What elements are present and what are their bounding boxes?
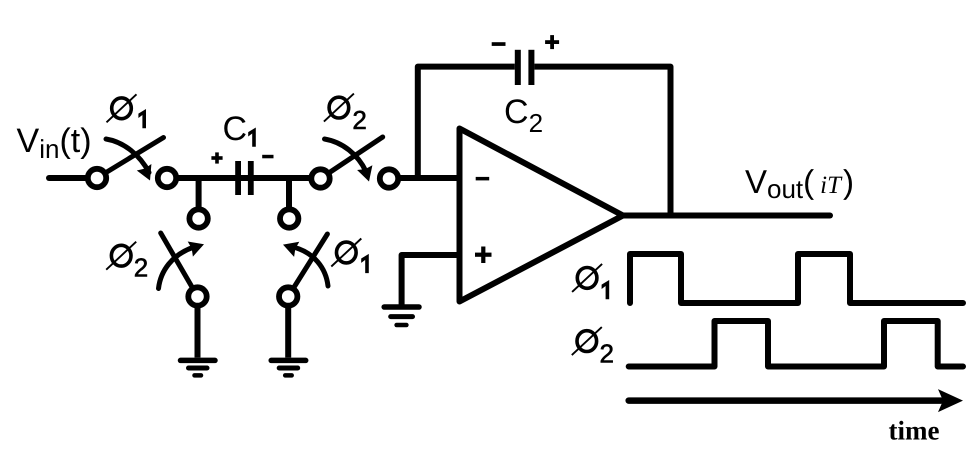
svg-text:2: 2 <box>600 339 614 369</box>
wire stub down to right grounding switch <box>286 178 292 211</box>
ground symbol under S3 <box>181 360 216 375</box>
op-amp U1 triangle <box>460 129 624 302</box>
time axis arrow <box>629 389 963 412</box>
wire from S2 to op-amp inverting input <box>398 175 460 181</box>
wire input from Vin <box>49 175 88 181</box>
wire between S1 and S2 through C1 <box>176 175 312 181</box>
wire feedback right vertical down to output <box>534 67 670 216</box>
label phi2 (switch S3) <box>106 242 148 283</box>
clock waveform phi1 <box>630 254 963 303</box>
plus sign at op-amp non-inverting input <box>475 247 492 264</box>
minus sign at op-amp inverting input <box>476 177 490 181</box>
minus sign at C1 right plate <box>262 155 273 159</box>
switch S1 (phi1, series input) <box>88 138 176 188</box>
ground symbol at op-amp + input <box>384 307 419 325</box>
svg-text:time: time <box>889 416 940 446</box>
minus sign at C2 left plate <box>492 42 506 46</box>
wire output <box>623 213 830 219</box>
label phi2 (switch S2) <box>324 94 367 135</box>
capacitor C1 <box>235 161 254 195</box>
capacitor C2 (feedback) <box>515 50 535 85</box>
label phi1 (switch S1) <box>107 94 147 128</box>
label phi2 (waveform) <box>572 327 614 369</box>
wire feedback left vertical and top run to C2 <box>418 67 515 178</box>
plus sign at C1 left plate <box>211 152 222 163</box>
label phi1 (switch S4) <box>331 239 369 274</box>
wire from ground to op-amp non-inverting input <box>402 255 460 307</box>
svg-text:2: 2 <box>134 253 148 283</box>
wire from S3 to ground <box>195 306 201 358</box>
switch S2 (phi2, series to op-amp) <box>311 137 398 188</box>
label phi1 (waveform) <box>572 264 609 299</box>
switch S4 (phi1, right grounding switch) <box>279 209 328 305</box>
svg-text:2: 2 <box>352 105 366 135</box>
plus sign at C2 right plate <box>545 35 559 49</box>
clock waveform phi2 <box>629 321 963 367</box>
wire stub down to left grounding switch <box>196 178 202 211</box>
svg-text:C: C <box>223 110 248 148</box>
ground symbol under S4 <box>271 360 306 375</box>
switch S3 (phi2, left grounding switch) <box>159 209 208 305</box>
wire from S4 to ground <box>285 306 291 358</box>
